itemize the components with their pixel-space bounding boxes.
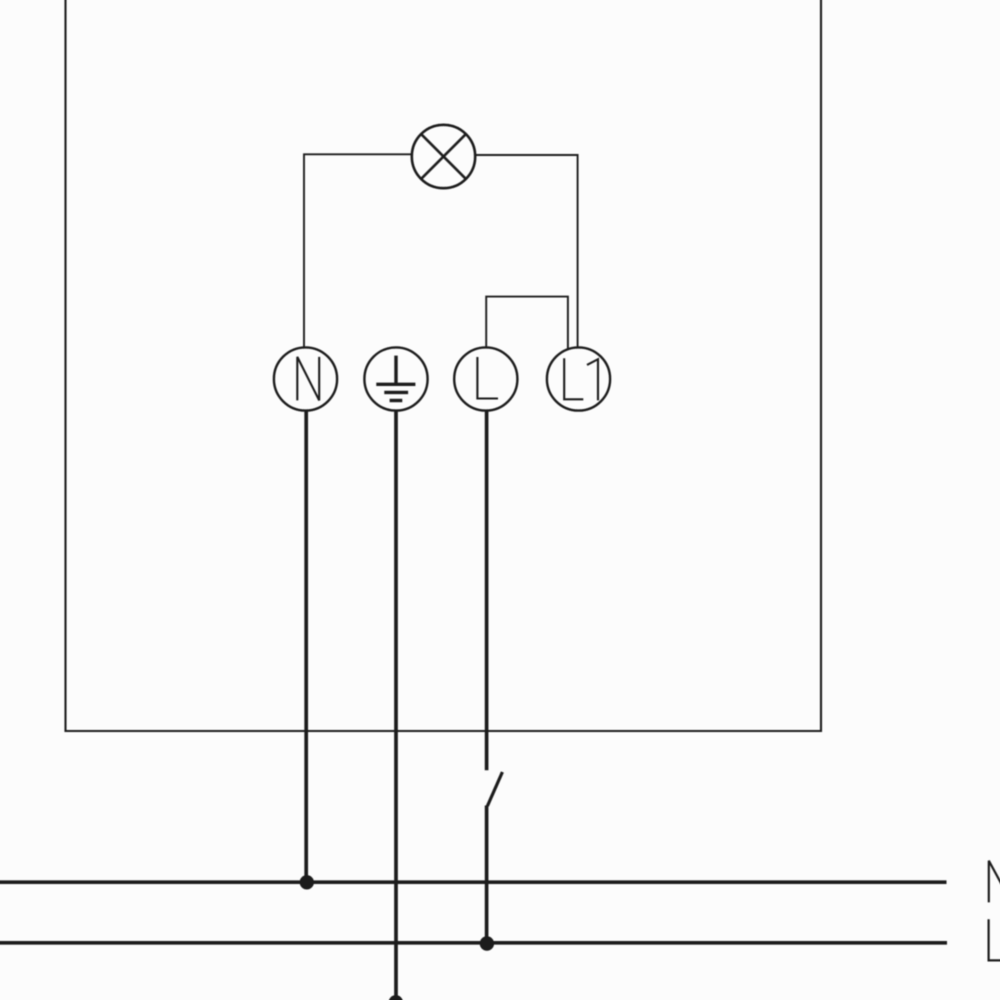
wire lamp to terminal N xyxy=(304,154,412,347)
junction dot PE (bottom edge) xyxy=(389,995,403,1000)
switch S1 (lever) xyxy=(487,772,502,806)
wire lamp to terminal L1 xyxy=(475,155,577,348)
label L (bus, right edge) xyxy=(989,919,1000,960)
label L (terminal) xyxy=(477,357,498,399)
terminal PE xyxy=(364,347,427,410)
bus L (mains line) xyxy=(0,941,947,945)
terminal N xyxy=(274,347,337,410)
wire PE terminal down (earth lead) xyxy=(394,411,398,998)
terminal L1 xyxy=(547,347,610,410)
wire L terminal down to switch xyxy=(485,411,489,771)
device outline (sensor/luminaire enclosure, open at top) xyxy=(66,0,822,731)
junction dot N xyxy=(300,875,314,889)
wire jumper L to L1 xyxy=(486,297,568,349)
label N (terminal) xyxy=(297,357,319,401)
earth symbol xyxy=(376,356,415,401)
terminal L xyxy=(454,347,517,410)
junction dot L xyxy=(480,936,494,950)
lamp E1 (circle with X) xyxy=(412,125,475,188)
wire switch to L bus xyxy=(485,806,489,944)
wire N terminal down to N bus xyxy=(304,411,308,882)
label L1 (terminal) xyxy=(564,358,598,400)
bus N (mains neutral line) xyxy=(0,880,947,884)
label N (bus, right edge) xyxy=(989,861,1000,903)
